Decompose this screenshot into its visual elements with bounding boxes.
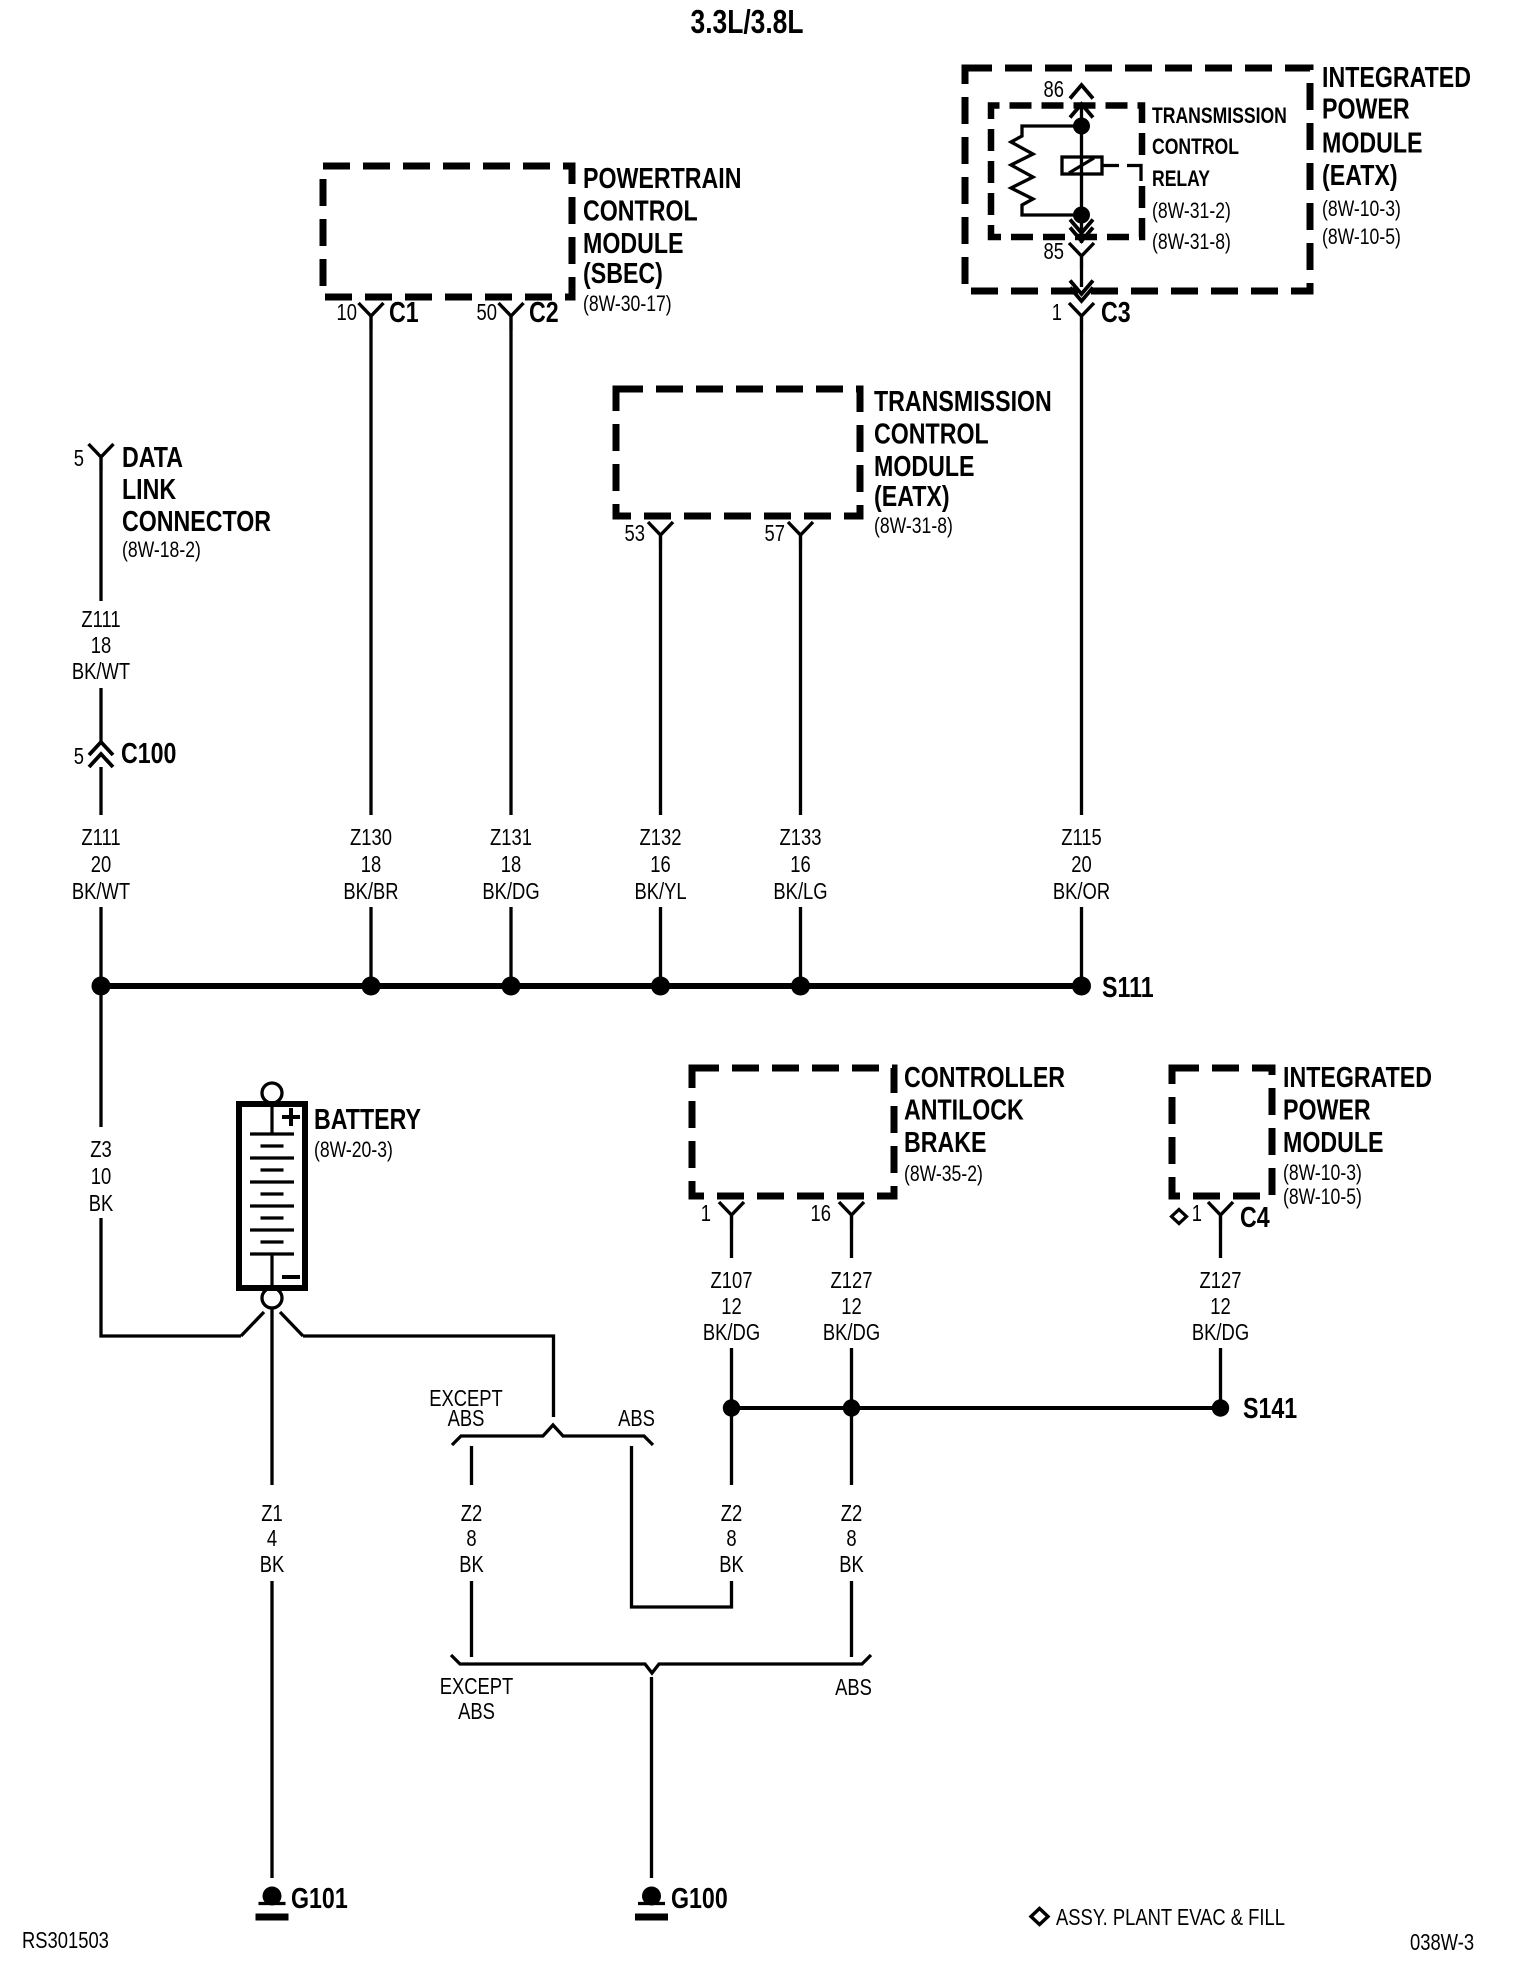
ABS label bottom — [835, 1675, 872, 1700]
assy plant evac fill diamond C4 — [1172, 1210, 1187, 1224]
integrated power module (EATX) label — [1322, 60, 1471, 249]
svg-text:EXCEPT: EXCEPT — [440, 1674, 514, 1699]
svg-text:CONTROL: CONTROL — [1152, 135, 1239, 159]
outer box bottom chevron connectors — [1070, 281, 1093, 295]
svg-text:(EATX): (EATX) — [1322, 158, 1398, 191]
ABS label top — [618, 1406, 655, 1431]
svg-text:CONTROL: CONTROL — [583, 194, 698, 227]
svg-text:(8W-10-5): (8W-10-5) — [1283, 1185, 1362, 1209]
wire Z131 upper — [509, 330, 512, 815]
svg-text:(8W-35-2): (8W-35-2) — [904, 1162, 983, 1186]
EXCEPT ABS label bottom — [440, 1674, 514, 1699]
svg-text:16: 16 — [650, 852, 670, 877]
wire Z131 lower — [509, 907, 512, 984]
wire label Z111 18 BK/WT — [81, 607, 120, 632]
wire label Z127 12 BK/DG C4 — [1200, 1268, 1242, 1293]
pin 85 label — [1044, 239, 1064, 264]
connector C100 double chevron — [89, 742, 113, 755]
svg-text:Z111: Z111 — [81, 607, 120, 632]
junction node S111 at Z133 — [791, 977, 810, 996]
wire Z2 except-abs upper — [470, 1446, 473, 1485]
svg-text:BK/YL: BK/YL — [634, 879, 686, 904]
wire Z1 lower to G101 — [270, 1581, 273, 1878]
pin 16 Y connector CAB — [839, 1202, 864, 1229]
svg-text:BK/OR: BK/OR — [1053, 879, 1110, 904]
pin 1 label CAB — [701, 1201, 711, 1226]
svg-text:(8W-31-2): (8W-31-2) — [1152, 199, 1231, 223]
powertrain control module (SBEC) dashed box — [323, 166, 572, 297]
svg-text:TRANSMISSION: TRANSMISSION — [874, 384, 1052, 417]
svg-text:BK/DG: BK/DG — [823, 1320, 880, 1345]
svg-text:C2: C2 — [529, 295, 559, 328]
pin 53 label — [625, 521, 645, 546]
svg-text:(8W-20-3): (8W-20-3) — [314, 1138, 393, 1162]
svg-text:Z127: Z127 — [831, 1268, 873, 1293]
svg-text:BK: BK — [89, 1191, 114, 1216]
svg-text:C4: C4 — [1240, 1200, 1270, 1233]
transmission control relay dashed box — [991, 106, 1142, 238]
svg-text:DATA: DATA — [122, 440, 183, 473]
wire Z133 lower — [799, 907, 802, 984]
footnote assy plant evac and fill — [1056, 1905, 1285, 1930]
junction node S111 at Z115 — [1072, 977, 1091, 996]
transmission control module label — [874, 384, 1052, 538]
svg-text:(8W-31-8): (8W-31-8) — [874, 514, 953, 538]
svg-text:C100: C100 — [121, 736, 176, 769]
battery label — [314, 1102, 421, 1162]
svg-text:ABS: ABS — [835, 1675, 872, 1700]
svg-text:(8W-30-17): (8W-30-17) — [583, 292, 672, 316]
svg-text:18: 18 — [91, 633, 111, 658]
svg-text:57: 57 — [765, 521, 785, 546]
svg-text:18: 18 — [361, 852, 381, 877]
pin 57 Y connector — [788, 522, 813, 549]
wire ABS branch to CAB ground — [632, 1446, 732, 1607]
footnote diamond — [1031, 1909, 1048, 1925]
svg-text:86: 86 — [1044, 77, 1064, 102]
data link connector pin Y — [89, 444, 114, 470]
svg-text:(8W-10-3): (8W-10-3) — [1283, 1161, 1362, 1185]
integrated power module dashed box — [1172, 1068, 1272, 1196]
svg-text:BATTERY: BATTERY — [314, 1102, 421, 1135]
pin 86 label — [1044, 77, 1064, 102]
pin 10 label — [337, 300, 357, 325]
svg-text:RS301503: RS301503 — [22, 1928, 109, 1953]
svg-text:(EATX): (EATX) — [874, 479, 950, 512]
svg-text:(SBEC): (SBEC) — [583, 256, 663, 289]
wire Z132 lower — [659, 907, 662, 984]
svg-text:Z131: Z131 — [490, 825, 532, 850]
svg-text:POWERTRAIN: POWERTRAIN — [583, 161, 741, 194]
svg-text:INTEGRATED: INTEGRATED — [1283, 1060, 1432, 1093]
svg-text:18: 18 — [501, 852, 521, 877]
wire Z127 CAB upper — [850, 1229, 853, 1258]
brace split battery negative — [452, 1425, 653, 1445]
svg-text:1: 1 — [1052, 300, 1062, 325]
svg-text:BK: BK — [719, 1552, 744, 1577]
svg-text:MODULE: MODULE — [1283, 1125, 1383, 1158]
svg-text:G100: G100 — [671, 1881, 728, 1914]
junction node S141 at Z127 — [843, 1399, 860, 1416]
svg-text:Z3: Z3 — [90, 1137, 111, 1162]
svg-text:(8W-10-3): (8W-10-3) — [1322, 197, 1401, 221]
svg-text:C3: C3 — [1101, 295, 1131, 328]
junction node bottom of relay coil — [1073, 207, 1090, 224]
svg-text:BK: BK — [839, 1552, 864, 1577]
pin 53 Y connector — [648, 522, 673, 549]
svg-text:12: 12 — [1210, 1294, 1230, 1319]
svg-text:Z130: Z130 — [350, 825, 392, 850]
svg-text:Z2: Z2 — [841, 1501, 862, 1526]
svg-text:10: 10 — [337, 300, 357, 325]
svg-text:Z107: Z107 — [711, 1268, 753, 1293]
controller antilock brake label — [904, 1060, 1065, 1186]
transmission control relay label — [1152, 104, 1287, 254]
wire Z2 except-abs lower — [470, 1581, 473, 1657]
splice S111 label — [1102, 970, 1154, 1003]
wire 85 to C3 — [1080, 269, 1083, 287]
svg-text:POWER: POWER — [1322, 92, 1410, 125]
controller antilock brake dashed box — [692, 1068, 894, 1196]
connector C3 — [1069, 303, 1094, 332]
pin 57 label — [765, 521, 785, 546]
svg-text:Z1: Z1 — [261, 1501, 282, 1526]
wire Z127 C4 upper — [1219, 1229, 1222, 1258]
svg-text:CONTROL: CONTROL — [874, 417, 989, 450]
svg-text:MODULE: MODULE — [1322, 126, 1422, 159]
pin 1 label C4 — [1192, 1201, 1202, 1226]
junction node top of relay coil — [1073, 118, 1090, 135]
svg-text:(8W-18-2): (8W-18-2) — [122, 538, 201, 562]
wire Z2 abs-2 lower — [850, 1581, 853, 1657]
transmission control module (EATX) dashed box — [616, 389, 860, 516]
data link connector label — [122, 440, 271, 562]
relay coil U1 — [1062, 157, 1102, 174]
svg-text:Z132: Z132 — [640, 825, 682, 850]
svg-text:BK/DG: BK/DG — [1192, 1320, 1249, 1345]
wire Z2 abs-1 upper — [730, 1411, 733, 1485]
splice S111 bus wire — [101, 983, 1082, 989]
pin 50 label — [477, 300, 497, 325]
wire Z3 upper — [99, 988, 102, 1127]
svg-text:ABS: ABS — [448, 1406, 485, 1431]
svg-text:1: 1 — [1192, 1201, 1202, 1226]
wire Z3 lower to battery negative — [101, 1218, 241, 1336]
connector C4 — [1208, 1202, 1233, 1229]
wire Z127 CAB lower — [850, 1348, 853, 1404]
pin 5 label data link connector — [74, 446, 84, 471]
wire Z130 upper — [369, 330, 372, 815]
svg-text:Z111: Z111 — [81, 825, 120, 850]
footer sheet code RS301503 — [22, 1928, 109, 1953]
svg-text:Z127: Z127 — [1200, 1268, 1242, 1293]
svg-text:CONTROLLER: CONTROLLER — [904, 1060, 1065, 1093]
wire Z111 20 upper — [99, 767, 102, 815]
svg-text:POWER: POWER — [1283, 1093, 1371, 1126]
wire label Z127 12 BK/DG CAB — [831, 1268, 873, 1293]
svg-text:1: 1 — [701, 1201, 711, 1226]
pin 85 Y connector — [1069, 243, 1094, 269]
svg-text:LINK: LINK — [122, 472, 176, 505]
wire label Z111 20 BK/WT — [81, 825, 120, 850]
svg-text:Z2: Z2 — [461, 1501, 482, 1526]
svg-text:BK: BK — [459, 1552, 484, 1577]
svg-text:ABS: ABS — [618, 1406, 655, 1431]
svg-text:16: 16 — [790, 852, 810, 877]
wire Z115 lower — [1080, 907, 1083, 984]
wire Z2 abs-2 upper — [850, 1411, 853, 1485]
wire label Z3 10 BK — [90, 1137, 111, 1162]
wire to G100 — [650, 1677, 653, 1878]
svg-text:MODULE: MODULE — [583, 226, 683, 259]
svg-text:S141: S141 — [1243, 1391, 1297, 1424]
svg-text:BK: BK — [260, 1552, 285, 1577]
svg-text:5: 5 — [74, 744, 84, 769]
junction node S141 at C4 — [1212, 1399, 1229, 1416]
svg-text:ASSY. PLANT EVAC & FILL: ASSY. PLANT EVAC & FILL — [1056, 1905, 1285, 1930]
ground G101 — [263, 1887, 282, 1906]
wire Z115 upper — [1080, 332, 1083, 815]
wire label Z133 16 BK/LG — [780, 825, 822, 850]
svg-text:TRANSMISSION: TRANSMISSION — [1152, 104, 1287, 128]
svg-text:INTEGRATED: INTEGRATED — [1322, 60, 1471, 93]
wire Z111 18 lower — [99, 688, 102, 741]
wire Z1 upper — [270, 1308, 273, 1485]
svg-text:RELAY: RELAY — [1152, 167, 1210, 191]
wire Z130 lower — [369, 907, 372, 984]
junction node S111 at Z132 — [651, 977, 670, 996]
svg-text:85: 85 — [1044, 239, 1064, 264]
svg-text:CONNECTOR: CONNECTOR — [122, 504, 271, 537]
pin 5 label C100 — [74, 744, 84, 769]
ground G100 label — [671, 1881, 728, 1914]
relay box bottom chevron connectors — [1070, 220, 1093, 234]
svg-text:50: 50 — [477, 300, 497, 325]
svg-text:12: 12 — [841, 1294, 861, 1319]
wire Z111 20 lower — [99, 907, 102, 984]
svg-text:12: 12 — [721, 1294, 741, 1319]
connector C1 — [359, 303, 384, 330]
svg-text:S111: S111 — [1102, 970, 1154, 1003]
svg-text:4: 4 — [267, 1526, 277, 1551]
pin 1 label C3 — [1052, 300, 1062, 325]
wire label Z132 16 BK/YL — [640, 825, 682, 850]
svg-text:C1: C1 — [389, 295, 419, 328]
junction node S111 at Z111 — [92, 977, 111, 996]
integrated power module (EATX) dashed box — [965, 68, 1310, 291]
svg-text:BK/WT: BK/WT — [72, 659, 130, 684]
svg-text:BRAKE: BRAKE — [904, 1125, 986, 1158]
connector C2 — [499, 303, 524, 330]
junction node S141 at Z107 — [723, 1399, 740, 1416]
wire label Z2 8 BK abs-1 — [721, 1501, 742, 1526]
svg-text:20: 20 — [1071, 852, 1091, 877]
svg-text:8: 8 — [466, 1526, 476, 1551]
wire label Z2 8 BK abs-2 — [841, 1501, 862, 1526]
title 3.3L/3.8L — [691, 4, 804, 40]
wire battery negative right diagonal — [280, 1312, 303, 1336]
svg-text:(8W-10-5): (8W-10-5) — [1322, 225, 1401, 249]
ground G101 label — [291, 1881, 348, 1914]
svg-text:8: 8 — [846, 1526, 856, 1551]
svg-text:10: 10 — [91, 1164, 111, 1189]
wire label Z130 18 BK/BR — [350, 825, 392, 850]
wire Z127 C4 lower — [1219, 1348, 1222, 1404]
pin 1 Y connector CAB — [719, 1202, 744, 1229]
wire label Z131 18 BK/DG — [490, 825, 532, 850]
svg-text:ANTILOCK: ANTILOCK — [904, 1093, 1024, 1126]
svg-text:20: 20 — [91, 852, 111, 877]
wire Z107 upper — [730, 1229, 733, 1258]
wire label Z115 20 BK/OR — [1061, 825, 1102, 850]
svg-text:BK/WT: BK/WT — [72, 879, 130, 904]
svg-text:8: 8 — [726, 1526, 736, 1551]
svg-text:53: 53 — [625, 521, 645, 546]
wire label Z1 4 BK — [261, 1501, 282, 1526]
pin 86 chevron connector — [1070, 85, 1093, 99]
wire label Z2 8 BK except-abs — [461, 1501, 482, 1526]
wire Z107 lower — [730, 1348, 733, 1404]
svg-text:BK/LG: BK/LG — [773, 879, 827, 904]
junction node S111 at Z131 — [502, 977, 521, 996]
relay box top chevron connector — [1070, 104, 1093, 118]
brace merge grounds — [451, 1655, 871, 1673]
wire label Z107 12 BK/DG — [711, 1268, 753, 1293]
splice S141 bus wire — [732, 1406, 1221, 1410]
splice S141 label — [1243, 1391, 1297, 1424]
svg-text:Z2: Z2 — [721, 1501, 742, 1526]
svg-text:(8W-31-8): (8W-31-8) — [1152, 230, 1231, 254]
wire relay coil vertical — [1080, 106, 1083, 243]
battery B1 — [239, 1083, 305, 1308]
svg-text:BK/BR: BK/BR — [343, 879, 398, 904]
powertrain control module label — [583, 161, 741, 316]
svg-text:BK/DG: BK/DG — [482, 879, 539, 904]
junction node S111 at Z130 — [362, 977, 381, 996]
footer sheet number 038W-3 — [1410, 1930, 1474, 1955]
svg-text:Z115: Z115 — [1061, 825, 1102, 850]
svg-text:G101: G101 — [291, 1881, 348, 1914]
wire Z133 upper — [799, 549, 802, 815]
svg-text:Z133: Z133 — [780, 825, 822, 850]
EXCEPT ABS label top — [429, 1386, 503, 1411]
wire Z111 18 upper — [99, 470, 102, 601]
svg-text:038W-3: 038W-3 — [1410, 1930, 1474, 1955]
pin 16 label CAB — [811, 1201, 831, 1226]
svg-text:16: 16 — [811, 1201, 831, 1226]
wire battery negative to brace — [303, 1336, 554, 1417]
integrated power module label — [1283, 1060, 1432, 1209]
svg-text:3.3L/3.8L: 3.3L/3.8L — [691, 4, 804, 40]
svg-text:BK/DG: BK/DG — [703, 1320, 760, 1345]
wire battery negative left diagonal — [241, 1312, 264, 1336]
wire Z132 upper — [659, 549, 662, 815]
svg-text:5: 5 — [74, 446, 84, 471]
resistor (relay suppression) — [1011, 126, 1082, 215]
svg-text:ABS: ABS — [458, 1699, 495, 1724]
svg-text:MODULE: MODULE — [874, 449, 974, 482]
ground G100 — [642, 1887, 661, 1906]
